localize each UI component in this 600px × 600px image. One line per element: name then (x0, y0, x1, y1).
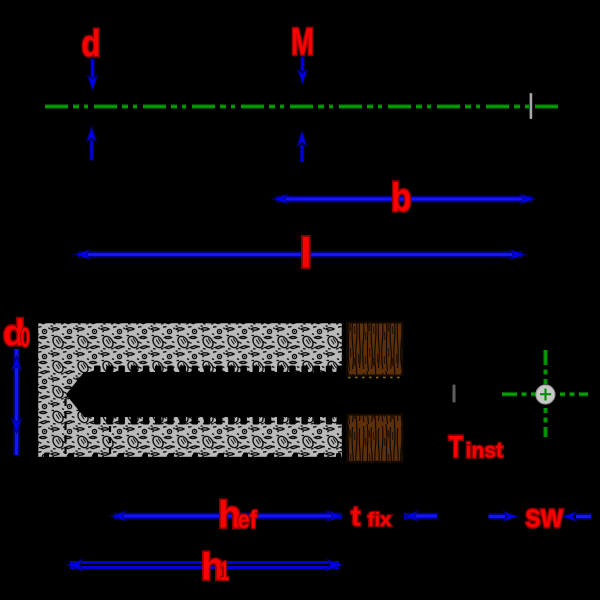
svg-text:sw: sw (525, 497, 563, 534)
hidden line hef depth (dashed) (109, 426, 111, 459)
svg-text:d: d (82, 23, 101, 64)
bolt end tick (side view) (530, 93, 533, 119)
dimension h1 (double line) (67, 559, 343, 570)
svg-text:inst: inst (466, 440, 504, 463)
svg-text:t: t (351, 501, 360, 532)
centerline (bolt axis, side view) (45, 104, 561, 109)
svg-text:ef: ef (238, 506, 258, 534)
hidden line h1 depth (dashed) (64, 399, 66, 459)
concrete section (37, 322, 343, 459)
dimension l (75, 250, 525, 260)
arrow d lower (points up) (87, 127, 97, 161)
arrow d upper (points down) (88, 59, 98, 91)
center cross on circle (540, 389, 551, 401)
dimension b (273, 194, 535, 204)
front view vertical centerline (543, 350, 548, 437)
svg-text:b: b (391, 176, 412, 220)
drilled hole with anchor (black cut-out) (66, 372, 343, 417)
arrow M upper (points down) (298, 57, 308, 84)
wood fixture lower (347, 415, 403, 463)
svg-text:0: 0 (21, 323, 31, 353)
dimension d0 (vertical) (12, 349, 22, 455)
hidden hole edge in wood (yellow dashed) (348, 377, 403, 379)
dimension sw (outside arrows) (489, 512, 592, 522)
bolt end tick (section view) (453, 385, 456, 403)
dimension t fix (outside arrows) (320, 511, 437, 521)
svg-text:T: T (449, 429, 464, 464)
concrete bottom edge band (37, 453, 343, 460)
label T inst (449, 429, 504, 464)
thread crests bottom (94, 416, 343, 425)
label h ef (218, 495, 258, 537)
label d0 (3, 312, 30, 353)
front view horizontal centerline (502, 392, 588, 397)
washer/nut circle (front view) (536, 385, 555, 404)
arrow M lower (points up) (297, 131, 307, 162)
label t fix (351, 501, 392, 532)
dimension hef (111, 511, 341, 521)
wood fixture upper (347, 323, 403, 376)
svg-text:l: l (300, 230, 312, 277)
label h1 (201, 547, 229, 589)
svg-text:1: 1 (220, 556, 229, 586)
thread crests top (94, 366, 343, 374)
svg-text:fix: fix (368, 510, 392, 531)
